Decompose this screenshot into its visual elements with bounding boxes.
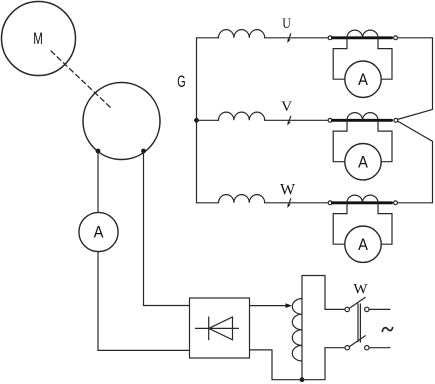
generator field terminal node right — [141, 149, 146, 154]
current arrow on V — [288, 116, 291, 123]
svg-text:A: A — [94, 224, 104, 242]
inductor phase W — [219, 195, 265, 203]
CT V secondary wires — [333, 122, 347, 162]
switch contact TL — [345, 307, 349, 311]
wire V to CT — [265, 119, 329, 121]
generator G circle — [83, 83, 160, 160]
CT W primary bar — [332, 201, 391, 204]
ammeter A (phase U) — [345, 61, 381, 97]
terminal W right — [394, 201, 398, 205]
generator output bus — [196, 38, 198, 203]
shaft coupling (dashed) — [51, 51, 111, 108]
terminal V left — [328, 118, 332, 122]
wire transformer bottom to switch bottom — [302, 348, 345, 380]
svg-text:G: G — [177, 73, 185, 91]
wire ammeter to rectifier (left, bottom path) — [98, 252, 190, 351]
wire field left down to ammeter — [97, 152, 99, 212]
current arrow on U — [288, 34, 291, 41]
svg-text:A: A — [358, 71, 368, 89]
svg-text:U: U — [282, 16, 291, 32]
svg-text:A: A — [358, 236, 368, 254]
CT U secondary coil — [347, 30, 378, 38]
ammeter A (phase W) — [345, 226, 381, 262]
CT U primary bar — [332, 36, 391, 39]
switch contact BR — [365, 346, 369, 350]
inductor phase U — [219, 30, 265, 38]
wire transformer top to switch top — [302, 276, 345, 310]
CT W secondary wires — [333, 204, 347, 244]
switch blade top — [349, 297, 365, 308]
switch blade bottom — [349, 336, 365, 347]
inductor phase V — [219, 112, 265, 120]
wire switch BR to AC source — [369, 347, 390, 349]
terminal U left — [328, 36, 332, 40]
CT V secondary coil — [347, 113, 378, 121]
phase V wire from bus — [197, 119, 219, 121]
terminal V right (apex) — [394, 118, 398, 122]
phase U wire from bus — [197, 37, 219, 39]
switch linkage bar — [357, 304, 359, 342]
svg-text:A: A — [358, 153, 368, 171]
wire U to CT — [265, 37, 329, 39]
svg-text:M: M — [33, 29, 43, 48]
current arrow on W — [288, 199, 291, 206]
terminal U right — [394, 36, 398, 40]
wire rectifier bottom to transformer bottom — [250, 350, 303, 380]
junction node transformer bottom — [300, 377, 305, 382]
junction node bus-V — [194, 118, 199, 123]
autotransformer winding line — [301, 276, 303, 380]
switch contact TR — [365, 307, 369, 311]
ammeter A (field) — [79, 212, 118, 251]
switch contact BL — [345, 346, 349, 350]
wire rectifier output to wiper arrow — [250, 305, 288, 307]
wire switch TR to AC source — [369, 308, 390, 310]
wire U right to edge — [397, 38, 432, 120]
CT V primary bar — [332, 119, 391, 122]
wire field right down to rectifier top input — [144, 152, 190, 306]
terminal W left — [328, 201, 332, 205]
ammeter A (phase V) — [345, 144, 381, 180]
wire V apex to right bus — [397, 121, 432, 203]
autotransformer coil — [292, 299, 302, 361]
wiper arrowhead — [286, 303, 293, 308]
svg-text:V: V — [281, 99, 292, 115]
svg-text:W: W — [280, 181, 296, 198]
CT W secondary coil — [347, 195, 378, 203]
rectifier box — [190, 298, 250, 358]
generator field terminal node left — [96, 149, 101, 154]
phase W wire from bus — [197, 202, 219, 204]
svg-text:W: W — [353, 282, 368, 298]
motor M — [2, 2, 76, 76]
CT U secondary wires — [333, 39, 347, 79]
diode inside rectifier — [196, 327, 239, 329]
AC source symbol ~ — [382, 328, 392, 332]
wire W to CT — [265, 202, 329, 204]
